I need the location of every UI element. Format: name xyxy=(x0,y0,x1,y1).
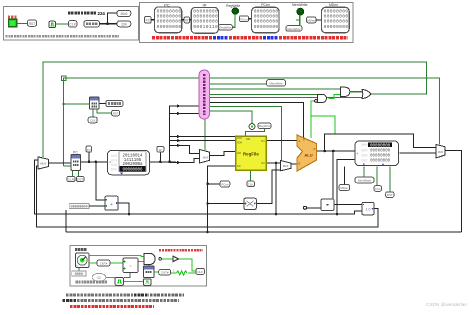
wire ROM out bus xyxy=(150,152,177,162)
svg-text:PCen: PCen xyxy=(261,3,270,7)
svg-text:00000000: 00000000 xyxy=(370,149,391,153)
svg-text:00C: 00C xyxy=(361,159,367,163)
svg-text:A: A xyxy=(299,139,301,143)
svg-text:00000000: 00000000 xyxy=(370,144,391,148)
control unit (pink) xyxy=(199,70,210,119)
svg-text:MDen: MDen xyxy=(329,3,338,7)
text note line2 xyxy=(63,299,77,302)
text 运行周期总个数 224 xyxy=(68,12,97,15)
wire counter top xyxy=(148,265,150,267)
wire gate ctrl y97 xyxy=(210,97,363,99)
svg-text:CLK: CLK xyxy=(197,270,203,274)
svg-text:004: 004 xyxy=(361,149,367,153)
label 启停键 (red) xyxy=(8,16,17,19)
comparator component xyxy=(123,258,138,273)
svg-text:00000004: 00000004 xyxy=(70,205,87,209)
svg-text:00000000: 00000000 xyxy=(370,154,391,158)
svg-text:30x0: 30x0 xyxy=(120,12,127,16)
svg-text:00000000: 00000000 xyxy=(157,8,182,14)
junction marker square xyxy=(61,76,66,81)
pin PC out box xyxy=(86,146,91,152)
svg-text:MemWrite: MemWrite xyxy=(269,82,283,86)
AND gate G2 xyxy=(341,87,350,96)
wire dial to comparator xyxy=(89,262,123,264)
wire and1-and2 bright xyxy=(329,94,341,98)
node CLK box regfile xyxy=(247,181,255,187)
svg-text:RST: RST xyxy=(113,112,119,116)
svg-text:20110014: 20110014 xyxy=(122,154,143,158)
text gray note xyxy=(76,281,108,284)
wire IR to R1# xyxy=(170,136,236,138)
wire bus to Wmux xyxy=(176,145,200,162)
node RegWrite label box xyxy=(258,123,271,129)
wire PC+4 bus y214 xyxy=(35,160,362,214)
wire R2 store branch xyxy=(275,163,277,214)
wire PCen tap xyxy=(208,183,221,185)
wire IR to R2# xyxy=(176,140,236,142)
wire top run to NAND xyxy=(89,256,144,257)
svg-text:00000000: 00000000 xyxy=(157,24,182,30)
splitter arrowheads xyxy=(177,104,181,164)
PANEL1 xyxy=(4,7,139,41)
wire PC to adder xyxy=(96,162,105,200)
node CLR box xyxy=(67,176,75,181)
wire R1 to ALU xyxy=(266,140,298,142)
node PCen box xyxy=(220,181,230,187)
svg-text:RST: RST xyxy=(29,22,36,26)
wire zero-flag bright xyxy=(311,101,335,138)
svg-text:00000000: 00000000 xyxy=(157,14,182,20)
svg-text:00000000: 00000000 xyxy=(324,14,349,20)
wire counter out xyxy=(154,271,159,273)
svg-text:0000: 0000 xyxy=(75,273,83,277)
wire xyxy=(17,23,28,25)
wire RegWrite ctrl xyxy=(210,111,253,124)
svg-text:A: A xyxy=(357,152,359,156)
wire NAND out xyxy=(161,258,172,260)
svg-text:00000000: 00000000 xyxy=(193,19,218,25)
svg-text:PC: PC xyxy=(87,148,91,152)
svg-text:PCen: PCen xyxy=(240,17,248,21)
LED RegWrite (dark green) xyxy=(232,8,238,14)
svg-text:IR: IR xyxy=(159,148,162,152)
wire ALU bypass xyxy=(325,134,437,151)
wire mux1 to PC xyxy=(48,162,71,164)
svg-text:WE: WE xyxy=(246,137,251,141)
wire PC enable xyxy=(64,165,71,167)
svg-text:RegFile: RegFile xyxy=(243,152,259,157)
wire buffer out down to CLK xyxy=(179,259,197,271)
node CNT box xyxy=(97,260,110,266)
node CLK box bottom xyxy=(196,268,204,274)
wire clock to counter xyxy=(124,280,144,282)
wire store to RAM xyxy=(337,160,355,215)
constant 00000004 xyxy=(69,203,89,208)
buffer gate small xyxy=(173,256,179,262)
wire RAM dout xyxy=(400,152,437,154)
clock component small xyxy=(115,278,124,286)
wire ALU result xyxy=(317,150,355,152)
wire PCpin stem xyxy=(88,152,90,162)
svg-text:00000000: 00000000 xyxy=(254,19,279,25)
svg-text:R1: R1 xyxy=(261,139,265,143)
node cycle label box xyxy=(106,100,123,106)
svg-text:00000000: 00000000 xyxy=(254,14,279,20)
svg-text:00000000: 00000000 xyxy=(370,159,391,163)
svg-text:00000000: 00000000 xyxy=(193,14,218,20)
svg-text:00000006: 00000006 xyxy=(122,168,143,172)
wire zero tap xyxy=(332,151,334,199)
clock component CLK1 xyxy=(49,21,56,27)
node RST box xyxy=(112,110,120,115)
svg-text:CNT#: CNT# xyxy=(100,262,108,266)
wire xyxy=(182,19,184,21)
svg-text:W#: W# xyxy=(237,151,242,155)
svg-text:008: 008 xyxy=(361,154,367,158)
svg-text:00000000: 00000000 xyxy=(324,8,349,14)
svg-text:PC: PC xyxy=(146,18,151,22)
RegFile (yellow) xyxy=(236,136,267,170)
text red note with blue words xyxy=(152,36,348,39)
svg-text:R2: R2 xyxy=(261,161,265,165)
register display PCen xyxy=(252,7,279,33)
svg-text:R1#: R1# xyxy=(237,136,242,140)
AND gate G1 xyxy=(318,94,327,102)
wire IR field taps xyxy=(170,106,199,163)
svg-text:MUX: MUX xyxy=(283,165,289,168)
svg-text:1411195: 1411195 xyxy=(124,159,142,163)
pin PCen box xyxy=(239,16,248,22)
svg-text:02C: 02C xyxy=(111,168,117,172)
wire writeback bus y232 xyxy=(66,210,462,232)
pin MDen box xyxy=(307,17,316,23)
svg-text:S: S xyxy=(303,138,305,142)
svg-text:028: 028 xyxy=(111,164,117,168)
wire ALUmux out xyxy=(291,163,298,165)
svg-text:12: 12 xyxy=(97,276,101,280)
svg-text:+: + xyxy=(110,202,113,208)
text note line3 red xyxy=(70,305,154,308)
svg-text:224: 224 xyxy=(121,22,127,26)
LED MemWrite xyxy=(297,8,304,15)
dial input component xyxy=(76,253,90,268)
wire xyxy=(56,23,69,25)
wire oval to clock xyxy=(106,276,116,278)
register display IR xyxy=(191,7,218,33)
clock component small2 xyxy=(144,279,152,286)
svg-text:RST: RST xyxy=(77,178,83,182)
mux1 PCsrc xyxy=(38,157,49,169)
node RST box ram xyxy=(386,192,394,198)
wire counter feed xyxy=(64,103,90,105)
wire Din writeback xyxy=(208,166,236,232)
svg-text:Din: Din xyxy=(237,164,242,168)
node CNT box 2 xyxy=(159,269,171,275)
wire xyxy=(316,19,322,21)
wire PC clr/rst stems xyxy=(73,170,79,176)
RAM data memory xyxy=(355,141,399,166)
junction xyxy=(106,22,109,25)
svg-text:00000000: 00000000 xyxy=(254,8,279,14)
node CLK box xyxy=(88,117,97,123)
ROM instruction memory xyxy=(108,151,150,175)
wire counter display link xyxy=(99,103,106,105)
wire branch bus y227 xyxy=(37,166,379,227)
wire gate ctrl y89 xyxy=(210,88,341,90)
wire imm to ALUmux xyxy=(256,170,280,204)
svg-text:RegWrite: RegWrite xyxy=(259,124,271,128)
svg-text:CLK: CLK xyxy=(375,187,381,191)
wire branch-select loop y62 xyxy=(43,62,427,157)
input pin circle small xyxy=(304,206,307,209)
node MemWrite tunnel box xyxy=(267,80,286,87)
NAND gate xyxy=(144,253,155,264)
sign extender xyxy=(244,198,256,209)
button BTN1 (green push button) xyxy=(9,19,17,26)
wire xyxy=(151,19,154,21)
svg-text:00000000: 00000000 xyxy=(193,8,218,14)
svg-text:RST: RST xyxy=(387,193,393,197)
MAINCOMP xyxy=(38,70,445,215)
text red panel title xyxy=(159,249,203,251)
svg-text:00010110: 00010110 xyxy=(193,24,218,30)
svg-text:00000000: 00000000 xyxy=(324,24,349,30)
register display MDen xyxy=(322,7,350,33)
wire RegWrite to RegFile xyxy=(245,129,264,137)
panel border frame bottom xyxy=(70,246,207,287)
pin IR box xyxy=(157,146,164,152)
mux3b ALUSrc xyxy=(280,161,291,171)
counter CTR1 xyxy=(90,97,100,109)
svg-text:MUX: MUX xyxy=(203,156,209,159)
wire xyxy=(249,18,252,20)
node MemWrite box xyxy=(355,177,374,183)
node RST label box xyxy=(28,20,37,26)
mux2 write-addr xyxy=(200,150,210,164)
svg-text:MUX: MUX xyxy=(438,151,444,154)
wire RAM ctrl stems xyxy=(364,166,390,192)
panel border frame left xyxy=(4,7,139,41)
svg-text:R: R xyxy=(314,147,316,151)
svg-text:RegWrite: RegWrite xyxy=(219,26,231,30)
wire xyxy=(100,13,118,24)
label 按键值 xyxy=(75,248,87,251)
wire resistor feed xyxy=(171,272,197,274)
comparator box xyxy=(321,199,334,211)
wire xyxy=(232,14,235,27)
wire MDen loop y76.5 xyxy=(64,78,440,166)
wire ALUSrc ctrl xyxy=(210,106,282,160)
svg-text:B: B xyxy=(299,162,301,166)
svg-text:024: 024 xyxy=(111,160,117,164)
wire comp lower xyxy=(124,273,130,278)
svg-text:020: 020 xyxy=(111,155,117,159)
panel border frame middle xyxy=(140,3,354,43)
wire counter stems xyxy=(93,109,112,117)
svg-text:MDen: MDen xyxy=(307,19,315,23)
wire xyxy=(299,15,301,26)
svg-text:00000000: 00000000 xyxy=(157,19,182,25)
wires green xyxy=(89,256,196,282)
svg-text:MUX: MUX xyxy=(40,162,46,166)
wire R2 to mux xyxy=(266,162,280,164)
wire Wmux out xyxy=(210,152,236,156)
svg-text:CLR: CLR xyxy=(68,178,74,182)
wire ALUOp bus xyxy=(210,102,304,138)
svg-text:00000000: 00000000 xyxy=(254,24,279,30)
svg-text:MemWrite: MemWrite xyxy=(292,3,307,7)
wire gate ctrl y94 xyxy=(210,93,318,95)
resistor zigzag xyxy=(177,271,187,275)
adder PC+4 xyxy=(105,196,118,210)
wire adder out xyxy=(118,203,129,214)
ALU (orange) xyxy=(297,135,317,171)
node CLK label box xyxy=(69,21,77,27)
svg-text:00000000: 00000000 xyxy=(324,19,349,25)
pin IR box xyxy=(184,17,189,23)
MAINWIRES xyxy=(35,62,462,233)
svg-text:PCen: PCen xyxy=(221,183,229,187)
PANEL2 xyxy=(140,3,354,43)
svg-text:R2#: R2# xyxy=(237,140,242,144)
node MemWrite label box xyxy=(286,26,302,31)
node RST box xyxy=(77,176,85,181)
svg-text:CLK: CLK xyxy=(90,119,96,123)
wire PC to ROM xyxy=(81,161,108,163)
text note line1 xyxy=(66,294,133,297)
svg-text:CLK: CLK xyxy=(69,23,76,27)
svg-text:000: 000 xyxy=(361,144,367,148)
mux4 writeback xyxy=(436,145,445,158)
svg-text:MemWrite: MemWrite xyxy=(287,27,301,31)
wire W-mux select xyxy=(204,119,206,150)
wire comparator link xyxy=(306,205,362,208)
register display PC xyxy=(155,7,182,33)
OR gate G3 xyxy=(362,89,371,98)
svg-text:PC: PC xyxy=(73,150,78,154)
text gray note row xyxy=(6,35,120,38)
svg-text:224: 224 xyxy=(98,11,106,16)
wire WB mux out xyxy=(445,151,462,233)
node MDen box xyxy=(339,185,350,191)
node RegWrite label box xyxy=(219,25,233,30)
probe RegWrite circle xyxy=(249,124,255,130)
wire dial stem xyxy=(78,268,80,272)
counter register xyxy=(144,266,155,278)
svg-text:1 0: 1 0 xyxy=(366,208,371,212)
node display box 30x0 xyxy=(117,10,131,16)
wire MemWrite ctrl y84 xyxy=(210,83,267,85)
flipflop zero flag xyxy=(362,202,374,214)
svg-text:ALU: ALU xyxy=(304,153,312,158)
svg-text:MDen: MDen xyxy=(340,186,348,190)
svg-text:CSDN @wenderlan: CSDN @wenderlan xyxy=(426,302,467,307)
svg-text:MemWrite: MemWrite xyxy=(358,179,372,183)
svg-text:RegWrite: RegWrite xyxy=(226,4,240,8)
TEXTS xyxy=(63,295,468,307)
wire comp to NAND xyxy=(138,261,144,263)
constant 0000 box xyxy=(72,271,86,276)
BOTTOMPANEL xyxy=(70,246,207,287)
wire imm tap xyxy=(208,203,244,205)
oval 12 xyxy=(92,273,106,281)
node CLK box ram xyxy=(374,186,382,192)
svg-text:A: A xyxy=(109,160,111,164)
wire RegFile clk stem xyxy=(250,170,252,181)
node display box 224 xyxy=(117,21,131,27)
pin PC box xyxy=(145,16,152,23)
svg-text:CNT#: CNT# xyxy=(161,271,169,275)
node 运行周期 label box xyxy=(84,21,100,27)
svg-text:CLK: CLK xyxy=(248,182,254,186)
